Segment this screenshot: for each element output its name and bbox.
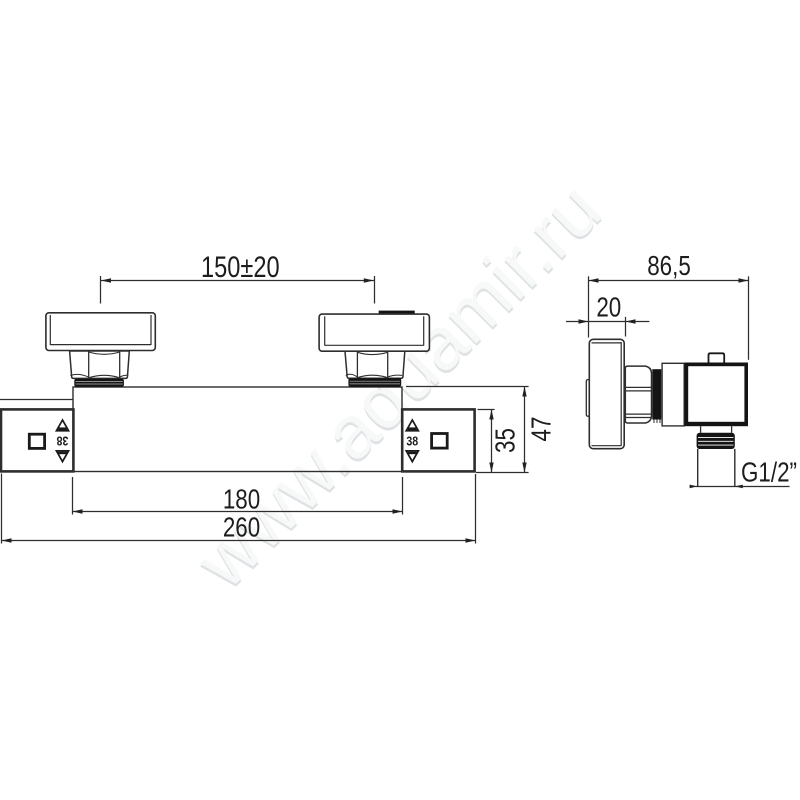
- svg-text:47: 47: [526, 417, 557, 442]
- dimension 260: [2, 474, 476, 544]
- side view threaded section: [697, 433, 735, 449]
- svg-text:86,5: 86,5: [647, 251, 691, 282]
- right cap square button: [432, 434, 448, 449]
- svg-text:38: 38: [56, 433, 68, 447]
- side view body square: [685, 363, 749, 427]
- svg-text:G1/2”: G1/2”: [741, 457, 797, 488]
- left handle nut: [70, 351, 130, 378]
- mixer body (front view): [73, 387, 402, 472]
- side view connector block: [662, 363, 684, 426]
- left cap markers (rotated 180): [56, 420, 69, 462]
- dimension 150±20: [101, 276, 375, 304]
- side view neck below body: [700, 426, 702, 433]
- svg-text:20: 20: [596, 292, 621, 323]
- left cap square button: [29, 434, 44, 448]
- hidden pipe line left: [0, 399, 73, 401]
- left handle: [46, 313, 155, 351]
- svg-text:150±20: 150±20: [201, 250, 280, 283]
- right handle nut: [345, 351, 405, 378]
- dimension 35: [478, 410, 495, 473]
- dimension 180: [73, 477, 403, 515]
- dimension 86,5: [589, 276, 749, 360]
- dimension G1/2: [696, 486, 790, 488]
- svg-text:260: 260: [223, 512, 260, 543]
- left ribbed ring: [74, 379, 124, 387]
- side view top tab: [709, 353, 725, 362]
- dimension 20: [566, 317, 649, 337]
- side view hex nut: [625, 366, 651, 423]
- watermark www.aquamir.ru: [178, 166, 618, 606]
- left end cap: [1, 409, 73, 471]
- right cap markers: [406, 420, 419, 462]
- side view outlet pipe: [698, 449, 735, 487]
- right handle: [319, 311, 429, 352]
- svg-text:35: 35: [490, 428, 521, 453]
- svg-text:38: 38: [406, 435, 418, 449]
- side view handle: [586, 339, 624, 448]
- right end cap: [402, 409, 474, 471]
- svg-text:180: 180: [223, 484, 260, 515]
- dimension 47: [406, 387, 529, 473]
- side view ribbed ring (black band): [652, 369, 661, 423]
- right ribbed ring: [348, 378, 401, 387]
